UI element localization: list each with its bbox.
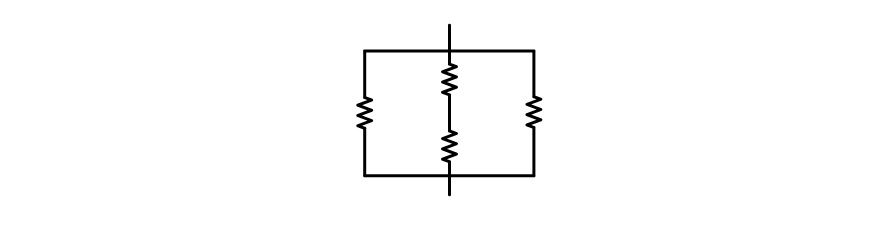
wire: [363, 51, 366, 98]
wire: [365, 174, 534, 177]
wire: [448, 25, 451, 51]
wire: [532, 51, 535, 97]
resistor R4: [527, 97, 541, 128]
resistor R1: [358, 98, 372, 129]
wire: [448, 162, 451, 176]
wire: [448, 51, 451, 64]
wire: [363, 128, 366, 175]
wire: [448, 95, 451, 131]
wire: [365, 50, 534, 53]
wire: [448, 176, 451, 195]
resistor R2: [443, 64, 457, 95]
wire: [532, 128, 535, 176]
resistor R3: [443, 131, 457, 162]
